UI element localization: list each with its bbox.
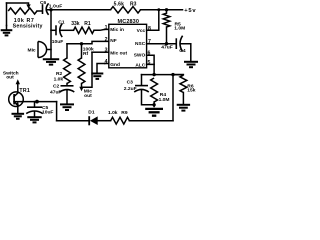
pin 3 stub bbox=[105, 51, 109, 53]
pin number 7 bbox=[148, 39, 151, 45]
wire TR1 base bbox=[14, 102, 57, 121]
resistor R4 (1.0M) bbox=[151, 78, 158, 107]
resistor R1 (33k) bbox=[74, 27, 95, 33]
svg-text:2.2uF: 2.2uF bbox=[124, 86, 137, 92]
label MC2830 bbox=[118, 19, 140, 25]
label 47uF (C2) bbox=[50, 89, 61, 95]
capacitor C2 bbox=[60, 86, 75, 92]
diode D1 bbox=[89, 116, 98, 125]
power +5v bbox=[184, 8, 196, 14]
pin number 1 bbox=[105, 25, 108, 31]
label R2 bbox=[56, 71, 63, 77]
label R4 bbox=[160, 92, 167, 98]
svg-text:15k: 15k bbox=[187, 88, 195, 94]
label 10uF (C5) bbox=[42, 110, 53, 116]
node R4 bottom bbox=[152, 103, 155, 106]
svg-text:R3: R3 bbox=[130, 2, 137, 8]
wire C6 to R3 bbox=[48, 9, 111, 11]
pin 2 label bbox=[110, 38, 116, 44]
node Rf top bbox=[80, 42, 83, 45]
wire pin 8 to +5v rail bbox=[147, 10, 159, 30]
svg-text:5.6k: 5.6k bbox=[114, 2, 125, 8]
wire R3 to +5v bbox=[141, 9, 183, 11]
pin 5 label bbox=[135, 63, 145, 69]
svg-text:4: 4 bbox=[105, 59, 108, 65]
label Switch out bbox=[3, 71, 19, 81]
node R5 bottom bbox=[165, 42, 168, 45]
wire pin 6 down bbox=[147, 55, 155, 74]
ground (R4) bbox=[145, 109, 163, 116]
resistor R6 (15k) bbox=[173, 75, 187, 105]
svg-text:C2: C2 bbox=[53, 84, 60, 90]
capacitor C6 bbox=[43, 3, 49, 14]
mic out arrow bbox=[79, 87, 83, 91]
transistor TR1 bbox=[9, 84, 24, 113]
svg-text:Mic in: Mic in bbox=[110, 27, 124, 33]
resistor R9 (1.0k) bbox=[111, 117, 130, 124]
label Mic out (node) bbox=[84, 89, 92, 100]
pin 4 label bbox=[110, 62, 120, 68]
pin 6 label bbox=[134, 53, 146, 59]
wire right drop bbox=[172, 75, 174, 121]
wire C4 to ground bbox=[181, 44, 191, 61]
svg-text:R2: R2 bbox=[56, 71, 63, 77]
wire C1 to R1 bbox=[61, 29, 73, 31]
label 5.6k bbox=[114, 2, 125, 8]
wire R1 to pin 1 bbox=[94, 28, 105, 31]
svg-text:C1: C1 bbox=[58, 20, 65, 26]
label C3 bbox=[127, 79, 134, 85]
svg-text:1.0k: 1.0k bbox=[54, 77, 64, 83]
capacitor C3 bbox=[134, 75, 154, 105]
wire pin 5 join bbox=[147, 63, 155, 65]
svg-text:10uF: 10uF bbox=[42, 110, 53, 116]
resistor R2 (1.0k) bbox=[64, 44, 71, 84]
svg-text:Vcc: Vcc bbox=[137, 28, 146, 34]
potentiometer R7 (10k, Sensisivity) bbox=[7, 3, 43, 26]
pin number 8 bbox=[148, 26, 151, 32]
pin number 3 bbox=[105, 48, 108, 54]
svg-text:10uF: 10uF bbox=[52, 39, 63, 45]
svg-text:SWO: SWO bbox=[134, 53, 146, 59]
label C1 bbox=[58, 20, 65, 26]
label 1.0uF bbox=[49, 4, 63, 10]
resistor R5 (1.0M) bbox=[163, 10, 170, 44]
svg-text:C4: C4 bbox=[179, 48, 186, 54]
label Mic bbox=[28, 48, 36, 54]
svg-text:C6: C6 bbox=[40, 0, 47, 6]
ground (pot R7) bbox=[1, 26, 13, 36]
capacitor C5 bbox=[26, 102, 43, 117]
svg-text:Mic: Mic bbox=[28, 48, 36, 54]
node right drop bbox=[171, 73, 174, 76]
pin 4 stub bbox=[105, 63, 109, 65]
label C2 bbox=[53, 84, 60, 90]
label C5 bbox=[42, 105, 49, 111]
svg-text:R1: R1 bbox=[84, 21, 91, 27]
pin 3 label bbox=[110, 51, 127, 57]
resistor R3 (5.6k) bbox=[111, 7, 141, 13]
label R6 bbox=[187, 83, 194, 89]
svg-text:47uF: 47uF bbox=[50, 89, 61, 95]
wire pin 2 to R2/Rf bbox=[67, 41, 109, 43]
svg-text:1.0M: 1.0M bbox=[159, 97, 170, 103]
node R5 top bbox=[165, 8, 168, 11]
capacitor C1 bbox=[56, 24, 62, 38]
svg-text:ALC: ALC bbox=[135, 63, 145, 69]
label Sensisivity bbox=[13, 24, 43, 30]
svg-text:Sensisivity: Sensisivity bbox=[13, 24, 43, 30]
svg-text:MC2830: MC2830 bbox=[118, 19, 140, 25]
svg-text:+5v: +5v bbox=[184, 8, 196, 14]
label 10k R7 bbox=[14, 18, 35, 24]
svg-text:Mic out: Mic out bbox=[110, 51, 127, 57]
pin 1 stub bbox=[105, 28, 109, 30]
label R3 bbox=[130, 2, 137, 8]
svg-text:NSC: NSC bbox=[135, 41, 146, 47]
label TR1 bbox=[19, 88, 30, 94]
label C6 bbox=[40, 0, 47, 6]
microphone Mic bbox=[38, 42, 51, 58]
svg-text:47uF: 47uF bbox=[161, 45, 172, 51]
label R5 bbox=[175, 21, 182, 27]
switch out arrow bbox=[16, 79, 20, 84]
svg-text:NF: NF bbox=[110, 38, 116, 44]
svg-text:R9: R9 bbox=[121, 110, 128, 116]
wire C2 to ground bbox=[66, 91, 68, 104]
label D1 bbox=[88, 110, 95, 116]
label Rf bbox=[83, 51, 89, 57]
label 1.0M (R5) bbox=[174, 26, 185, 32]
label 100k bbox=[83, 46, 94, 52]
svg-text:C3: C3 bbox=[127, 79, 134, 85]
ground (mic) bbox=[43, 59, 59, 64]
svg-text:33k: 33k bbox=[71, 21, 80, 27]
wire pin 3 to mic-out node bbox=[82, 52, 105, 87]
svg-text:D1: D1 bbox=[88, 110, 95, 116]
wire pin 4 to ground bbox=[97, 64, 105, 73]
pin 8 label bbox=[137, 28, 146, 34]
wire pin 7 to C4 bbox=[147, 43, 176, 45]
svg-text:out: out bbox=[84, 93, 92, 99]
op-amp U1 MC2830 box bbox=[109, 24, 147, 68]
wire R2 to C2 bbox=[66, 84, 68, 86]
svg-text:8: 8 bbox=[148, 26, 151, 32]
svg-text:TR1: TR1 bbox=[19, 88, 30, 94]
ground (pin 4) bbox=[91, 74, 103, 79]
pin 7 label bbox=[135, 41, 146, 47]
ground (C2) bbox=[60, 104, 74, 110]
label R1 bbox=[84, 21, 91, 27]
wire D1 to R9 bbox=[97, 120, 110, 122]
label R9 bbox=[121, 110, 128, 116]
label 33k bbox=[71, 21, 80, 27]
ground (C4) bbox=[184, 62, 198, 67]
ground (TR1 emitter) bbox=[12, 114, 25, 119]
label 1.0k (R2) bbox=[54, 77, 64, 83]
wire mic to C1 bbox=[51, 29, 55, 31]
label C4 bbox=[179, 48, 186, 54]
resistor Rf (100k) bbox=[78, 44, 85, 84]
label 15k bbox=[187, 88, 195, 94]
capacitor C4 bbox=[176, 36, 182, 52]
label 47uF (C4) bbox=[161, 45, 172, 51]
pin number 5 bbox=[148, 60, 151, 66]
svg-text:Rf: Rf bbox=[83, 51, 89, 57]
pin number 2 bbox=[105, 37, 108, 43]
pin number 6 bbox=[148, 51, 151, 57]
node bias junction bbox=[49, 8, 52, 11]
svg-text:out: out bbox=[6, 75, 14, 81]
node Vcc rail bbox=[157, 8, 160, 11]
label 1.0k (R9) bbox=[108, 110, 118, 116]
wire R9 to right drop bbox=[129, 120, 173, 122]
label 2.2uF bbox=[124, 86, 137, 92]
ground (R6) bbox=[177, 105, 190, 111]
svg-text:Gnd: Gnd bbox=[110, 62, 120, 68]
svg-text:1.0M: 1.0M bbox=[174, 26, 185, 32]
node C5 junction bbox=[35, 100, 39, 104]
svg-text:1.0k: 1.0k bbox=[108, 110, 118, 116]
label 10uF bbox=[52, 39, 63, 45]
pin 1 label bbox=[110, 27, 124, 33]
pin number 4 bbox=[105, 59, 108, 65]
ground (C5) bbox=[27, 117, 41, 122]
wire bottom to D1 bbox=[57, 120, 89, 122]
label 1.0M (R4) bbox=[159, 97, 170, 103]
wire ALC node bbox=[142, 74, 184, 76]
node ALC junction bbox=[152, 73, 155, 76]
wire Rf to mic-out node bbox=[81, 84, 83, 88]
wire bias drop to mic bbox=[50, 10, 52, 59]
